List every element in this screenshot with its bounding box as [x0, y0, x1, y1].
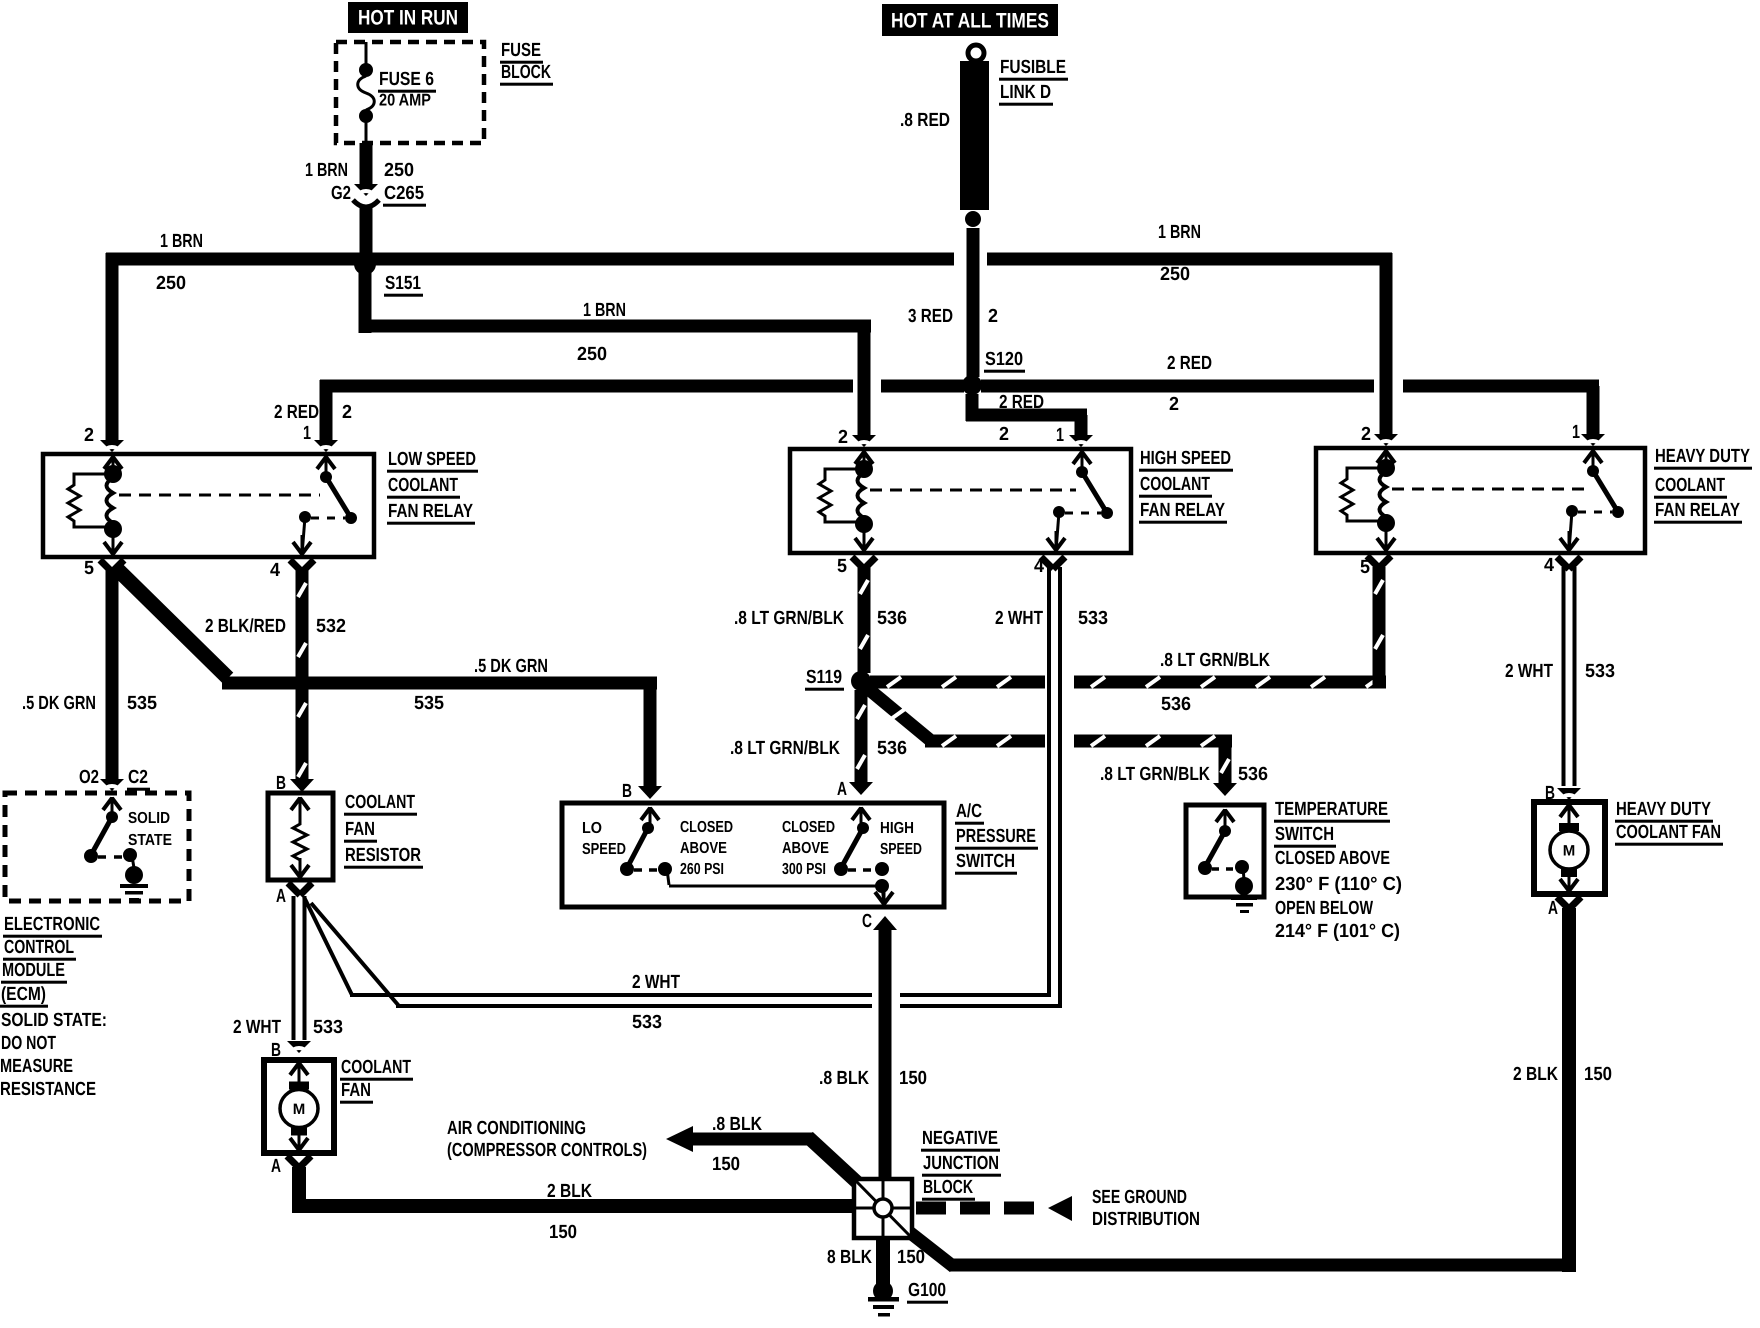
label .5 DK GRN ecm: [22, 693, 96, 714]
svg-text:ABOVE: ABOVE: [782, 840, 829, 857]
label 2 WHT hd: [1505, 661, 1553, 682]
svg-text:SOLID STATE:: SOLID STATE:: [1, 1010, 107, 1031]
ECM internal ground: [120, 866, 148, 901]
relay box high speed coolant fan relay K-HS: [790, 449, 1131, 553]
high speed coolant fan relay K-HS pin 5 terminal: [855, 531, 873, 551]
svg-text:2 RED: 2 RED: [1167, 353, 1212, 374]
svg-text:MODULE: MODULE: [2, 960, 65, 981]
label FUSE 6: [378, 69, 436, 93]
label S151: [384, 273, 423, 297]
connector ball below fusible link: [965, 211, 981, 227]
svg-text:150: 150: [549, 1222, 577, 1243]
label ELECTRONIC CONTROL MODULE block: [0, 914, 107, 1100]
label CLOSED ABOVE 260 PSI: [680, 819, 733, 878]
svg-text:2 WHT: 2 WHT: [632, 972, 680, 993]
label FUSIBLE LINK D: [999, 57, 1068, 106]
wire 1 BRN drop to heavy duty relay pin 2: [1374, 253, 1398, 447]
wire .8 BLK 150 air conditioning stub: [666, 1126, 860, 1185]
label G2: [331, 183, 351, 204]
svg-text:1 BRN: 1 BRN: [583, 300, 626, 321]
high speed coolant fan relay K-HS pin 4 terminal: [1047, 531, 1065, 551]
label 532: [316, 616, 346, 637]
AC switch lo speed contacts: [620, 822, 672, 885]
svg-text:2 RED: 2 RED: [999, 392, 1044, 413]
label .5 DK GRN ac: [474, 656, 548, 677]
svg-text:2: 2: [1169, 394, 1179, 415]
label B ac: [622, 781, 632, 802]
high speed coolant fan relay K-HS coil suppression resistor: [819, 469, 864, 522]
label 2 near pin1: [342, 402, 352, 423]
wire .8 LT GRN/BLK 536 S119 to temperature switch: [866, 687, 1237, 796]
coolant fan resistor element: [291, 797, 309, 878]
svg-text:.5 DK GRN: .5 DK GRN: [474, 656, 548, 677]
label 1 BRN: [305, 160, 348, 181]
svg-text:(COMPRESSOR CONTROLS): (COMPRESSOR CONTROLS): [447, 1140, 647, 1161]
AC switch high speed contacts: [834, 822, 889, 876]
svg-text:A: A: [276, 886, 286, 907]
wire 2 RED bus segment b: [881, 380, 964, 393]
label 536 bus: [1161, 694, 1191, 715]
wire 2 RED bus segment a: [320, 380, 854, 442]
svg-text:2: 2: [342, 402, 352, 423]
label LO SPEED: [582, 820, 626, 858]
label S119: [805, 667, 844, 691]
svg-text:2 WHT: 2 WHT: [233, 1017, 281, 1038]
label A/C PRESSURE SWITCH: [955, 801, 1038, 875]
svg-text:HEAVY DUTY: HEAVY DUTY: [1655, 446, 1750, 467]
svg-text:2: 2: [84, 425, 94, 446]
label 150 fan: [549, 1222, 577, 1243]
label .8 BLK c: [819, 1068, 869, 1089]
svg-text:JUNCTION: JUNCTION: [923, 1153, 999, 1174]
connector into low speed relay pin 1: [314, 440, 338, 453]
label B hd fan: [1545, 783, 1555, 804]
wire 2 WHT 533 heavy duty pin4 to fan B: [1557, 557, 1581, 801]
svg-text:HIGH SPEED: HIGH SPEED: [1140, 448, 1231, 469]
label A resistor: [276, 886, 286, 907]
svg-text:250: 250: [156, 273, 186, 294]
AC pressure switch box: [562, 803, 944, 907]
svg-text:536: 536: [877, 608, 907, 629]
label 1 BRN right: [1158, 222, 1201, 243]
electronic control module box: [5, 793, 189, 901]
svg-text:FAN RELAY: FAN RELAY: [1140, 500, 1225, 521]
svg-text:LO: LO: [582, 820, 602, 837]
svg-text:C265: C265: [384, 183, 424, 204]
svg-text:20 AMP: 20 AMP: [379, 91, 431, 110]
svg-text:SPEED: SPEED: [582, 841, 626, 858]
AC switch A terminal: [852, 807, 870, 827]
splice S151: [354, 253, 376, 275]
svg-text:DO NOT: DO NOT: [1, 1033, 56, 1054]
svg-text:B: B: [276, 773, 286, 794]
label 2 WHT mid: [632, 972, 680, 993]
label 2: [988, 306, 998, 327]
svg-text:A: A: [271, 1156, 281, 1177]
label 150 hd: [1584, 1064, 1612, 1085]
svg-text:C2: C2: [128, 767, 148, 788]
svg-text:1: 1: [303, 423, 311, 444]
svg-text:SWITCH: SWITCH: [956, 851, 1015, 872]
label LOW SPEED COOLANT FAN RELAY: [387, 449, 478, 525]
AC switch internal wire to C: [669, 879, 893, 905]
svg-text:HOT AT ALL TIMES: HOT AT ALL TIMES: [891, 10, 1049, 33]
svg-text:HIGH: HIGH: [880, 820, 914, 837]
svg-text:SWITCH: SWITCH: [1275, 824, 1334, 845]
svg-text:A/C: A/C: [956, 801, 982, 822]
svg-text:FAN RELAY: FAN RELAY: [1655, 500, 1740, 521]
label 536 pin5: [877, 608, 907, 629]
wire 1 BRN 250 bus right segment: [987, 253, 1392, 266]
wire .8 LT GRN/BLK 536 S119 to heavy duty pin 5: [870, 556, 1391, 689]
svg-text:A: A: [837, 779, 847, 800]
wire 3 RED 2: [967, 228, 980, 377]
heavy duty coolant fan relay K-HD pin 2 terminal: [1377, 450, 1395, 470]
svg-text:8 BLK: 8 BLK: [827, 1247, 872, 1268]
svg-text:532: 532: [316, 616, 346, 637]
svg-text:533: 533: [1078, 608, 1108, 629]
wire 2 BLK 150 heavy duty fan to junction block: [908, 897, 1581, 1272]
svg-text:TEMPERATURE: TEMPERATURE: [1275, 799, 1388, 820]
svg-text:G2: G2: [331, 183, 351, 204]
svg-text:150: 150: [897, 1247, 925, 1268]
label 2 BLK/RED: [205, 616, 286, 637]
low speed coolant fan relay K-LS coil: [104, 465, 122, 555]
label COOLANT FAN RESISTOR: [344, 792, 423, 869]
label 2 right: [1169, 394, 1179, 415]
label 536 ac: [877, 738, 907, 759]
svg-text:SOLID: SOLID: [128, 810, 170, 827]
svg-text:ABOVE: ABOVE: [680, 840, 727, 857]
svg-text:FAN RELAY: FAN RELAY: [388, 501, 473, 522]
connector C265 terminal G2: [353, 184, 379, 207]
low speed coolant fan relay K-LS pin 2 terminal: [104, 456, 122, 476]
svg-text:250: 250: [384, 160, 414, 181]
svg-text:M: M: [293, 1101, 306, 1118]
svg-text:DISTRIBUTION: DISTRIBUTION: [1092, 1209, 1200, 1230]
svg-text:150: 150: [899, 1068, 927, 1089]
heavy duty coolant fan motor: [1550, 804, 1588, 892]
heavy duty coolant fan relay K-HD pin 5 terminal: [1377, 531, 1395, 551]
wire 1 BRN 250 S151 branch: [359, 262, 877, 448]
fuse block outline: [336, 42, 484, 143]
svg-text:533: 533: [632, 1012, 662, 1033]
svg-text:SPEED: SPEED: [880, 841, 922, 858]
svg-text:NEGATIVE: NEGATIVE: [922, 1128, 998, 1149]
wire 2 BLK 150 coolant fan to junction block: [287, 1156, 858, 1213]
label HIGH SPEED COOLANT FAN RELAY: [1139, 448, 1233, 524]
label pin 2 HD: [1361, 424, 1371, 445]
label SOLID STATE inside ECM: [128, 810, 172, 849]
label 250: [384, 160, 414, 181]
svg-text:G100: G100: [908, 1280, 946, 1301]
label G100: [907, 1280, 948, 1304]
svg-text:FUSE: FUSE: [501, 40, 541, 61]
svg-text:536: 536: [1161, 694, 1191, 715]
svg-text:COOLANT: COOLANT: [388, 475, 458, 496]
connector into heavy duty relay pin 1: [1581, 434, 1605, 447]
svg-text:RESISTOR: RESISTOR: [345, 845, 421, 866]
label .8 LT GRN/BLK bus: [1160, 650, 1270, 671]
label 8 BLK: [827, 1247, 872, 1268]
low speed coolant fan relay K-LS switch: [299, 471, 357, 555]
svg-text:260 PSI: 260 PSI: [680, 861, 724, 878]
label pin 4 LS: [270, 560, 280, 581]
svg-text:B: B: [622, 781, 632, 802]
svg-text:COOLANT: COOLANT: [1655, 475, 1725, 496]
label 150 c: [899, 1068, 927, 1089]
svg-text:150: 150: [1584, 1064, 1612, 1085]
relay box low speed coolant fan relay K-LS: [43, 454, 374, 557]
svg-text:RESISTANCE: RESISTANCE: [0, 1079, 96, 1100]
power feed header HOT AT ALL TIMES: [882, 4, 1058, 36]
label 536 temp: [1238, 764, 1268, 785]
heavy duty coolant fan relay K-HD coil suppression resistor: [1341, 468, 1386, 521]
svg-text:536: 536: [1238, 764, 1268, 785]
label 533 fan: [313, 1017, 343, 1038]
label O2: [79, 767, 99, 788]
svg-text:C: C: [862, 911, 872, 932]
label S120: [984, 349, 1025, 373]
label C2: [127, 767, 150, 791]
svg-text:COOLANT: COOLANT: [1140, 474, 1210, 495]
label SEE GROUND DISTRIBUTION: [1092, 1187, 1200, 1230]
svg-text:BLOCK: BLOCK: [501, 62, 551, 83]
splice S120: [962, 375, 982, 395]
wire .8 BLK 150 AC switch C to junction block: [873, 916, 897, 1181]
label pin 2 LS: [84, 425, 94, 446]
label 533 mid: [632, 1012, 662, 1033]
label .8 LT GRN/BLK temp: [1100, 764, 1210, 785]
wire 1 BRN drop to low speed relay pin 2: [100, 253, 124, 453]
coolant fan resistor box: [268, 793, 333, 880]
label pin 4 HS: [1034, 556, 1044, 577]
wire 2 RED S120 branch: [966, 394, 1094, 448]
wire 2 WHT 533 resistor A to coolant fan B: [287, 883, 312, 1054]
heavy duty coolant fan relay K-HD coil: [1377, 459, 1395, 551]
svg-text:250: 250: [1160, 264, 1190, 285]
svg-text:FUSE 6: FUSE 6: [379, 69, 434, 90]
label pin 1 HS: [1056, 425, 1064, 446]
label 2 branch: [999, 424, 1009, 445]
fuse FUSE 6 20 AMP: [358, 42, 375, 143]
wire 2 BLK/RED 532 pin4 to resistor: [290, 560, 314, 792]
label 2 BLK fan: [547, 1181, 592, 1202]
power feed header HOT IN RUN: [348, 2, 468, 33]
negative junction block: [854, 1179, 912, 1238]
svg-text:4: 4: [270, 560, 280, 581]
svg-text:535: 535: [414, 693, 444, 714]
label FUSE BLOCK: [500, 40, 553, 85]
svg-text:S119: S119: [806, 667, 842, 688]
low speed coolant fan relay K-LS actuation dashed line: [119, 494, 320, 497]
label AIR CONDITIONING: [447, 1118, 647, 1161]
low speed coolant fan relay K-LS coil suppression resistor: [68, 474, 113, 527]
fusible link D: [960, 45, 989, 210]
label 533 hd: [1585, 661, 1615, 682]
splice S119: [851, 671, 871, 691]
label TEMPERATURE SWITCH: [1274, 799, 1402, 942]
wire .5 DK GRN 535 pin5 to ECM: [100, 560, 124, 779]
svg-text:536: 536: [877, 738, 907, 759]
svg-text:230° F (110° C): 230° F (110° C): [1275, 874, 1402, 895]
svg-text:5: 5: [837, 556, 847, 577]
wire 2 WHT 533 resistor A branch to high speed relay pin 4: [304, 557, 1065, 1008]
svg-text:214° F (101° C): 214° F (101° C): [1275, 921, 1400, 942]
label pin 2 HS: [838, 427, 848, 448]
label 2 RED near pin1: [274, 402, 319, 423]
label 150 g: [897, 1247, 925, 1268]
svg-text:CLOSED: CLOSED: [782, 819, 835, 836]
svg-text:533: 533: [1585, 661, 1615, 682]
svg-text:2: 2: [988, 306, 998, 327]
svg-text:2 BLK/RED: 2 BLK/RED: [205, 616, 286, 637]
svg-text:1: 1: [1572, 422, 1580, 443]
ground G100: [868, 1281, 899, 1317]
wire .5 DK GRN 535 pin5 to AC switch B: [114, 566, 662, 799]
heavy duty coolant fan box: [1534, 802, 1605, 894]
label 1 BRN left: [160, 231, 203, 252]
svg-text:LOW SPEED: LOW SPEED: [388, 449, 476, 470]
svg-text:BLOCK: BLOCK: [923, 1177, 973, 1198]
ECM internal switch: [84, 797, 137, 868]
high speed coolant fan relay K-HS pin 1 terminal: [1073, 451, 1091, 471]
label 250 branch: [577, 344, 607, 365]
svg-text:.8 BLK: .8 BLK: [819, 1068, 869, 1089]
heavy duty coolant fan relay K-HD pin 1 terminal: [1584, 450, 1602, 470]
svg-text:AIR CONDITIONING: AIR CONDITIONING: [447, 1118, 586, 1139]
svg-text:300 PSI: 300 PSI: [782, 861, 826, 878]
wire 8 BLK 150 to G100: [876, 1238, 890, 1284]
label B resistor: [276, 773, 286, 794]
svg-text:5: 5: [84, 558, 94, 579]
label 1 BRN branch: [583, 300, 626, 321]
label 20 AMP: [379, 91, 431, 110]
svg-text:S151: S151: [385, 273, 421, 294]
wire .8 LT GRN/BLK 536 S119 to AC switch A: [849, 690, 873, 795]
low speed coolant fan relay K-LS pin 1 terminal: [317, 456, 335, 476]
label HEAVY DUTY COOLANT FAN RELAY: [1654, 446, 1752, 524]
svg-text:1: 1: [1056, 425, 1064, 446]
svg-text:150: 150: [712, 1154, 740, 1175]
label pin 1 LS: [303, 423, 311, 444]
svg-text:.8 LT GRN/BLK: .8 LT GRN/BLK: [1100, 764, 1210, 785]
label 535 ecm: [127, 693, 157, 714]
svg-text:2 WHT: 2 WHT: [995, 608, 1043, 629]
label 2 BLK hd: [1513, 1064, 1558, 1085]
svg-text:LINK D: LINK D: [1000, 82, 1051, 103]
svg-text:3 RED: 3 RED: [908, 306, 953, 327]
label .8 LT GRN/BLK ac: [730, 738, 840, 759]
svg-text:COOLANT: COOLANT: [345, 792, 415, 813]
label A fan: [271, 1156, 281, 1177]
label 535 ac: [414, 693, 444, 714]
label .8 RED: [900, 110, 950, 131]
label pin 5 LS: [84, 558, 94, 579]
label pin 1 HD: [1572, 422, 1580, 443]
label 2 RED branch: [999, 392, 1044, 413]
label 150 stub: [712, 1154, 740, 1175]
svg-text:(ECM): (ECM): [1, 984, 46, 1005]
wire 1 BRN 250 bus left segment: [106, 253, 954, 266]
wire 1 BRN 250 to S151: [360, 207, 373, 256]
wire 1 BRN 250 fuse output: [360, 143, 373, 186]
svg-text:.8 BLK: .8 BLK: [712, 1114, 762, 1135]
svg-text:1 BRN: 1 BRN: [305, 160, 348, 181]
svg-text:STATE: STATE: [128, 832, 172, 849]
svg-text:ELECTRONIC: ELECTRONIC: [4, 914, 100, 935]
high speed coolant fan relay K-HS switch: [1053, 466, 1113, 551]
label 533 top: [1078, 608, 1108, 629]
label 2 WHT fan: [233, 1017, 281, 1038]
svg-text:M: M: [1563, 843, 1576, 860]
label B fan: [271, 1040, 281, 1061]
label NEGATIVE JUNCTION BLOCK: [921, 1128, 1001, 1201]
svg-text:COOLANT FAN: COOLANT FAN: [1616, 822, 1721, 843]
label COOLANT FAN: [340, 1057, 413, 1104]
label 250 right: [1160, 264, 1190, 285]
connector C2 into ECM: [100, 779, 124, 792]
svg-text:CLOSED ABOVE: CLOSED ABOVE: [1275, 848, 1390, 869]
label .8 BLK stub: [712, 1114, 762, 1135]
svg-text:.8 LT GRN/BLK: .8 LT GRN/BLK: [730, 738, 840, 759]
wire 2 RED bus segment c: [981, 380, 1374, 393]
svg-text:COOLANT: COOLANT: [341, 1057, 411, 1078]
svg-text:2 BLK: 2 BLK: [1513, 1064, 1558, 1085]
svg-text:.5 DK GRN: .5 DK GRN: [22, 693, 96, 714]
svg-text:1 BRN: 1 BRN: [160, 231, 203, 252]
label 2 WHT top: [995, 608, 1043, 629]
heavy duty coolant fan relay K-HD switch: [1566, 465, 1624, 551]
low speed coolant fan relay K-LS pin 4 terminal: [293, 535, 311, 555]
svg-text:.8 RED: .8 RED: [900, 110, 950, 131]
svg-text:O2: O2: [79, 767, 99, 788]
wire .8 LT GRN/BLK 536 high speed pin 5 down: [852, 557, 876, 673]
svg-text:PRESSURE: PRESSURE: [956, 826, 1036, 847]
svg-text:2: 2: [1361, 424, 1371, 445]
wire see ground distribution dashed: [916, 1196, 1072, 1221]
svg-text:250: 250: [577, 344, 607, 365]
svg-text:2: 2: [999, 424, 1009, 445]
coolant fan box: [264, 1060, 334, 1153]
svg-text:CLOSED: CLOSED: [680, 819, 733, 836]
heavy duty coolant fan relay K-HD actuation dashed line: [1392, 488, 1587, 491]
svg-text:HOT IN RUN: HOT IN RUN: [358, 7, 458, 30]
label A hd fan: [1548, 898, 1558, 919]
AC switch B terminal: [641, 807, 659, 827]
label C265: [383, 183, 426, 207]
svg-text:2 WHT: 2 WHT: [1505, 661, 1553, 682]
svg-text:4: 4: [1544, 555, 1554, 576]
high speed coolant fan relay K-HS actuation dashed line: [870, 489, 1076, 492]
svg-text:SEE GROUND: SEE GROUND: [1092, 1187, 1187, 1208]
svg-text:2 BLK: 2 BLK: [547, 1181, 592, 1202]
temperature switch box: [1186, 805, 1264, 897]
label .8 LT GRN/BLK pin5: [734, 608, 844, 629]
low speed coolant fan relay K-LS pin 5 terminal: [104, 535, 122, 555]
svg-text:OPEN BELOW: OPEN BELOW: [1275, 898, 1373, 919]
temperature switch contacts: [1198, 809, 1249, 880]
svg-text:S120: S120: [985, 349, 1023, 370]
svg-text:2: 2: [838, 427, 848, 448]
svg-text:1 BRN: 1 BRN: [1158, 222, 1201, 243]
label 3 RED: [908, 306, 953, 327]
label HIGH SPEED: [880, 820, 922, 858]
label CLOSED ABOVE 300 PSI: [782, 819, 835, 878]
label A ac: [837, 779, 847, 800]
svg-text:HEAVY DUTY: HEAVY DUTY: [1616, 799, 1711, 820]
svg-text:FUSIBLE: FUSIBLE: [1000, 57, 1066, 78]
